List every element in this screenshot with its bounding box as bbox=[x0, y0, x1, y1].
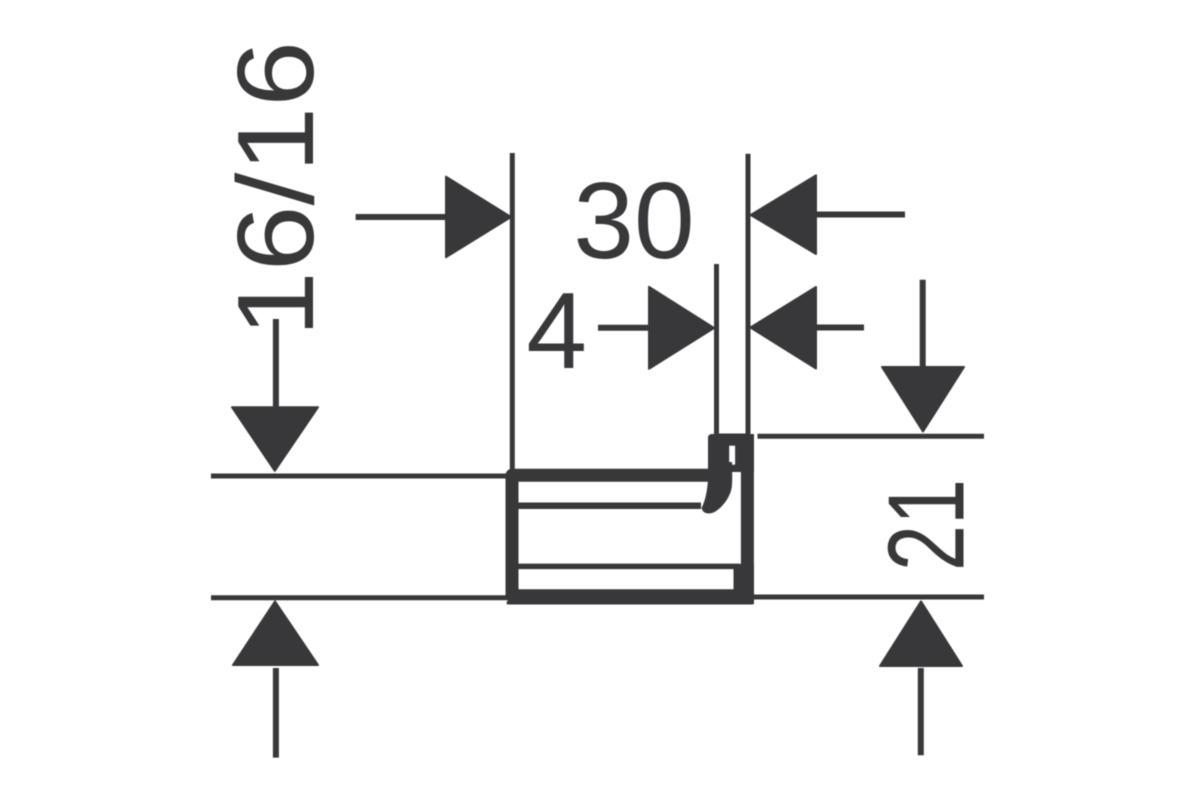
extension line H4 (lower right horizontal, profile bottom level) bbox=[750, 595, 984, 600]
profile inner line 2 (upper edge of bottom wall) bbox=[515, 564, 740, 570]
dim 16/16 upper tail line bbox=[273, 319, 279, 410]
svg-text:16/16: 16/16 bbox=[215, 41, 337, 337]
profile folded lip curl (tab curving down-left) bbox=[702, 462, 733, 514]
arrowhead dim 16/16 down (points down at H1) bbox=[232, 407, 318, 471]
arrowhead dim 21 up (points up at H4) bbox=[880, 601, 962, 666]
extension line V1 (left extension of 30 dim, x=512) bbox=[510, 153, 515, 478]
dim 16/16 lower tail line bbox=[273, 668, 279, 758]
extension line H1 (upper left horizontal, wall surface) bbox=[211, 474, 516, 479]
extension line H3 (upper right horizontal, hook top level) bbox=[758, 434, 985, 439]
profile bottom right corner block bbox=[734, 564, 755, 604]
arrowhead dim 4 left (points right at V3) bbox=[649, 287, 714, 369]
extension line V3 (left extension of 4 dim, x=716.5) bbox=[714, 264, 719, 445]
dim 21 upper tail line bbox=[920, 280, 926, 368]
svg-text:30: 30 bbox=[573, 160, 694, 282]
arrowhead dim 16/16 up (points up at H2) bbox=[233, 601, 318, 665]
arrowhead dim 21 down (points down at H3) bbox=[882, 367, 964, 432]
profile inner line 1 (bottom of upper slot channel) bbox=[515, 502, 701, 509]
dim 30 left tail line bbox=[356, 214, 450, 220]
dim 21 lower tail line bbox=[918, 668, 924, 755]
svg-text:4: 4 bbox=[526, 270, 587, 392]
dim 4 right tail line bbox=[814, 325, 864, 331]
dim 30 right tail line bbox=[814, 212, 905, 218]
profile hook solid band (top right, contains slot) bbox=[708, 434, 754, 472]
dim 4 left tail line bbox=[598, 325, 652, 331]
profile main outline (left wall, top bar, bottom bar, right wall, hook top) bbox=[512, 440, 747, 596]
profile bottom outer edge thickening strip bbox=[507, 601, 755, 605]
svg-text:21: 21 bbox=[866, 479, 988, 571]
extension line H2 (lower left horizontal) bbox=[211, 595, 516, 600]
arrowhead dim 4 right (points left at V2) bbox=[751, 287, 817, 369]
extension line V2 (right extension of 30/4 dims, x=748) bbox=[746, 154, 751, 445]
arrowhead dim 30 right (points left at V2) bbox=[751, 175, 816, 254]
profile slot (white notch in hook) bbox=[729, 446, 735, 465]
arrowhead dim 30 left (points right at V1) bbox=[446, 177, 511, 258]
